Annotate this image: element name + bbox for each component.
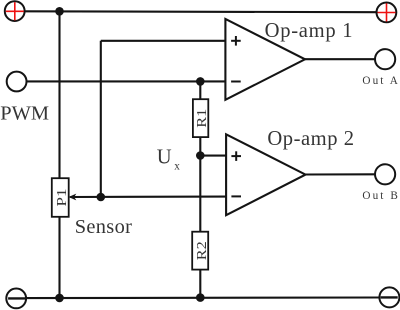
resistor R2 bbox=[192, 232, 210, 270]
svg-text:P1: P1 bbox=[55, 189, 70, 207]
op-amp U1 minus sign bbox=[231, 81, 241, 83]
junction node Ux bbox=[196, 151, 205, 160]
terminal V- bottom-left bbox=[6, 289, 26, 309]
label node Ux bbox=[157, 146, 180, 172]
terminal PWM bbox=[7, 72, 27, 92]
wire node Ux down to R2 bbox=[199, 156, 201, 232]
wire op-amp 1 output to Out A bbox=[305, 58, 375, 60]
svg-text:Op-amp 2: Op-amp 2 bbox=[267, 128, 354, 150]
potentiometer wiper arrowhead bbox=[69, 194, 77, 201]
wire bottom rail bbox=[26, 296, 379, 299]
op-amp U2 minus sign bbox=[231, 195, 241, 197]
junction node R1 top / PWM / op-amp 1 inverting bbox=[196, 77, 205, 86]
terminal Out A bbox=[375, 49, 395, 69]
terminal V- bottom-right bbox=[379, 287, 399, 307]
svg-text:PWM: PWM bbox=[0, 102, 49, 124]
op-amp U2 triangle bbox=[226, 134, 305, 215]
op-amp U1 triangle bbox=[225, 19, 305, 100]
svg-text:Out A: Out A bbox=[362, 75, 397, 87]
wire R2 bottom stub bbox=[199, 270, 201, 298]
wire wiper junction to op-amp 2 inverting input bbox=[70, 196, 226, 198]
wire left rail lower bbox=[58, 217, 60, 298]
wire node Ux to op-amp 2 noninverting input bbox=[200, 155, 226, 157]
svg-text:U: U bbox=[157, 146, 172, 168]
op-amp U1 plus sign bbox=[231, 36, 241, 46]
wire R1 bottom to node Ux bbox=[199, 137, 201, 155]
junction node bottom-left rail bbox=[55, 294, 64, 303]
op-amp U2 plus sign bbox=[231, 151, 241, 161]
potentiometer P1 bbox=[52, 178, 70, 217]
junction node top-left rail bbox=[55, 7, 64, 16]
terminal V+ top-left bbox=[5, 1, 25, 21]
junction node R2 bottom rail bbox=[196, 293, 205, 302]
svg-text:x: x bbox=[174, 161, 180, 173]
svg-text:Out B: Out B bbox=[362, 190, 397, 202]
wire left rail upper bbox=[58, 11, 60, 178]
wire PWM to op-amp 1 inverting input bbox=[27, 80, 226, 82]
junction node wiper bbox=[97, 193, 106, 202]
resistor R1 bbox=[193, 99, 210, 137]
svg-text:R2: R2 bbox=[195, 241, 210, 260]
wire vertical from op-amp 1 noninverting input down to wiper junction bbox=[100, 41, 102, 197]
svg-text:Sensor: Sensor bbox=[75, 216, 132, 238]
wire op-amp 1 noninverting input horizontal bbox=[101, 40, 226, 42]
terminal Out B bbox=[375, 164, 395, 184]
wire R1 top stub bbox=[199, 81, 201, 99]
terminal V+ top-right bbox=[377, 3, 397, 23]
svg-text:Op-amp 1: Op-amp 1 bbox=[265, 20, 353, 42]
wire top rail bbox=[25, 10, 377, 13]
wire op-amp 2 output to Out B bbox=[305, 173, 375, 175]
svg-text:R1: R1 bbox=[195, 109, 210, 128]
